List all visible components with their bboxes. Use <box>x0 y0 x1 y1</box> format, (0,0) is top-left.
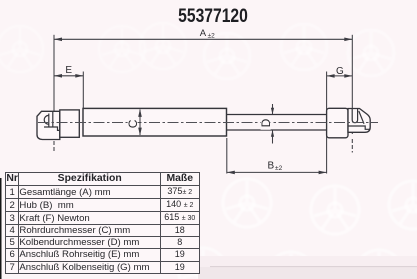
left connector block <box>60 110 80 137</box>
svg-text:±2: ±2 <box>208 32 216 39</box>
svg-text:55377120: 55377120 <box>178 5 248 27</box>
dimension B arrows <box>227 171 327 175</box>
left end fitting (eye/socket) <box>37 111 60 139</box>
extension line left (eye centerline) <box>53 35 55 153</box>
right connector block <box>327 108 348 138</box>
extension line B left (tube end) <box>226 138 228 174</box>
extension line G left / B right (block edge line) <box>326 72 328 174</box>
dimension A label <box>200 28 215 40</box>
dimension D (rod diameter) <box>272 104 274 144</box>
right end fitting (eye/socket) <box>348 109 370 133</box>
dimension C (tube diameter) <box>139 110 141 136</box>
piston rod <box>227 115 327 131</box>
dimension A line <box>54 38 352 40</box>
faint page split line <box>210 266 417 268</box>
label C rotated <box>128 117 138 129</box>
right fitting inner socket detail <box>348 109 370 130</box>
svg-text:B: B <box>268 161 275 172</box>
tube body <box>83 108 227 136</box>
svg-text:C: C <box>126 119 140 128</box>
dimension G arrows <box>327 74 353 78</box>
dimension A arrows <box>54 38 352 42</box>
dimension E line <box>54 75 83 77</box>
part number 55377120 <box>178 5 248 27</box>
label D rotated <box>261 117 271 130</box>
specification table <box>5 172 200 274</box>
svg-text:D: D <box>259 118 273 127</box>
extension line right (eye centerline) <box>351 35 353 153</box>
left fitting inner socket detail <box>44 112 60 131</box>
svg-text:E: E <box>65 65 72 76</box>
extension line E right <box>82 72 84 110</box>
svg-text:G: G <box>336 66 344 77</box>
dimension B label <box>268 161 283 173</box>
dimension E arrows <box>54 74 83 78</box>
dimension B line <box>227 171 327 173</box>
dimension G line <box>327 75 353 77</box>
svg-text:A: A <box>200 28 207 39</box>
bottom gray band <box>200 256 417 267</box>
horizontal centerline <box>38 122 378 124</box>
svg-text:±2: ±2 <box>275 165 283 172</box>
left page border bar <box>0 178 2 279</box>
